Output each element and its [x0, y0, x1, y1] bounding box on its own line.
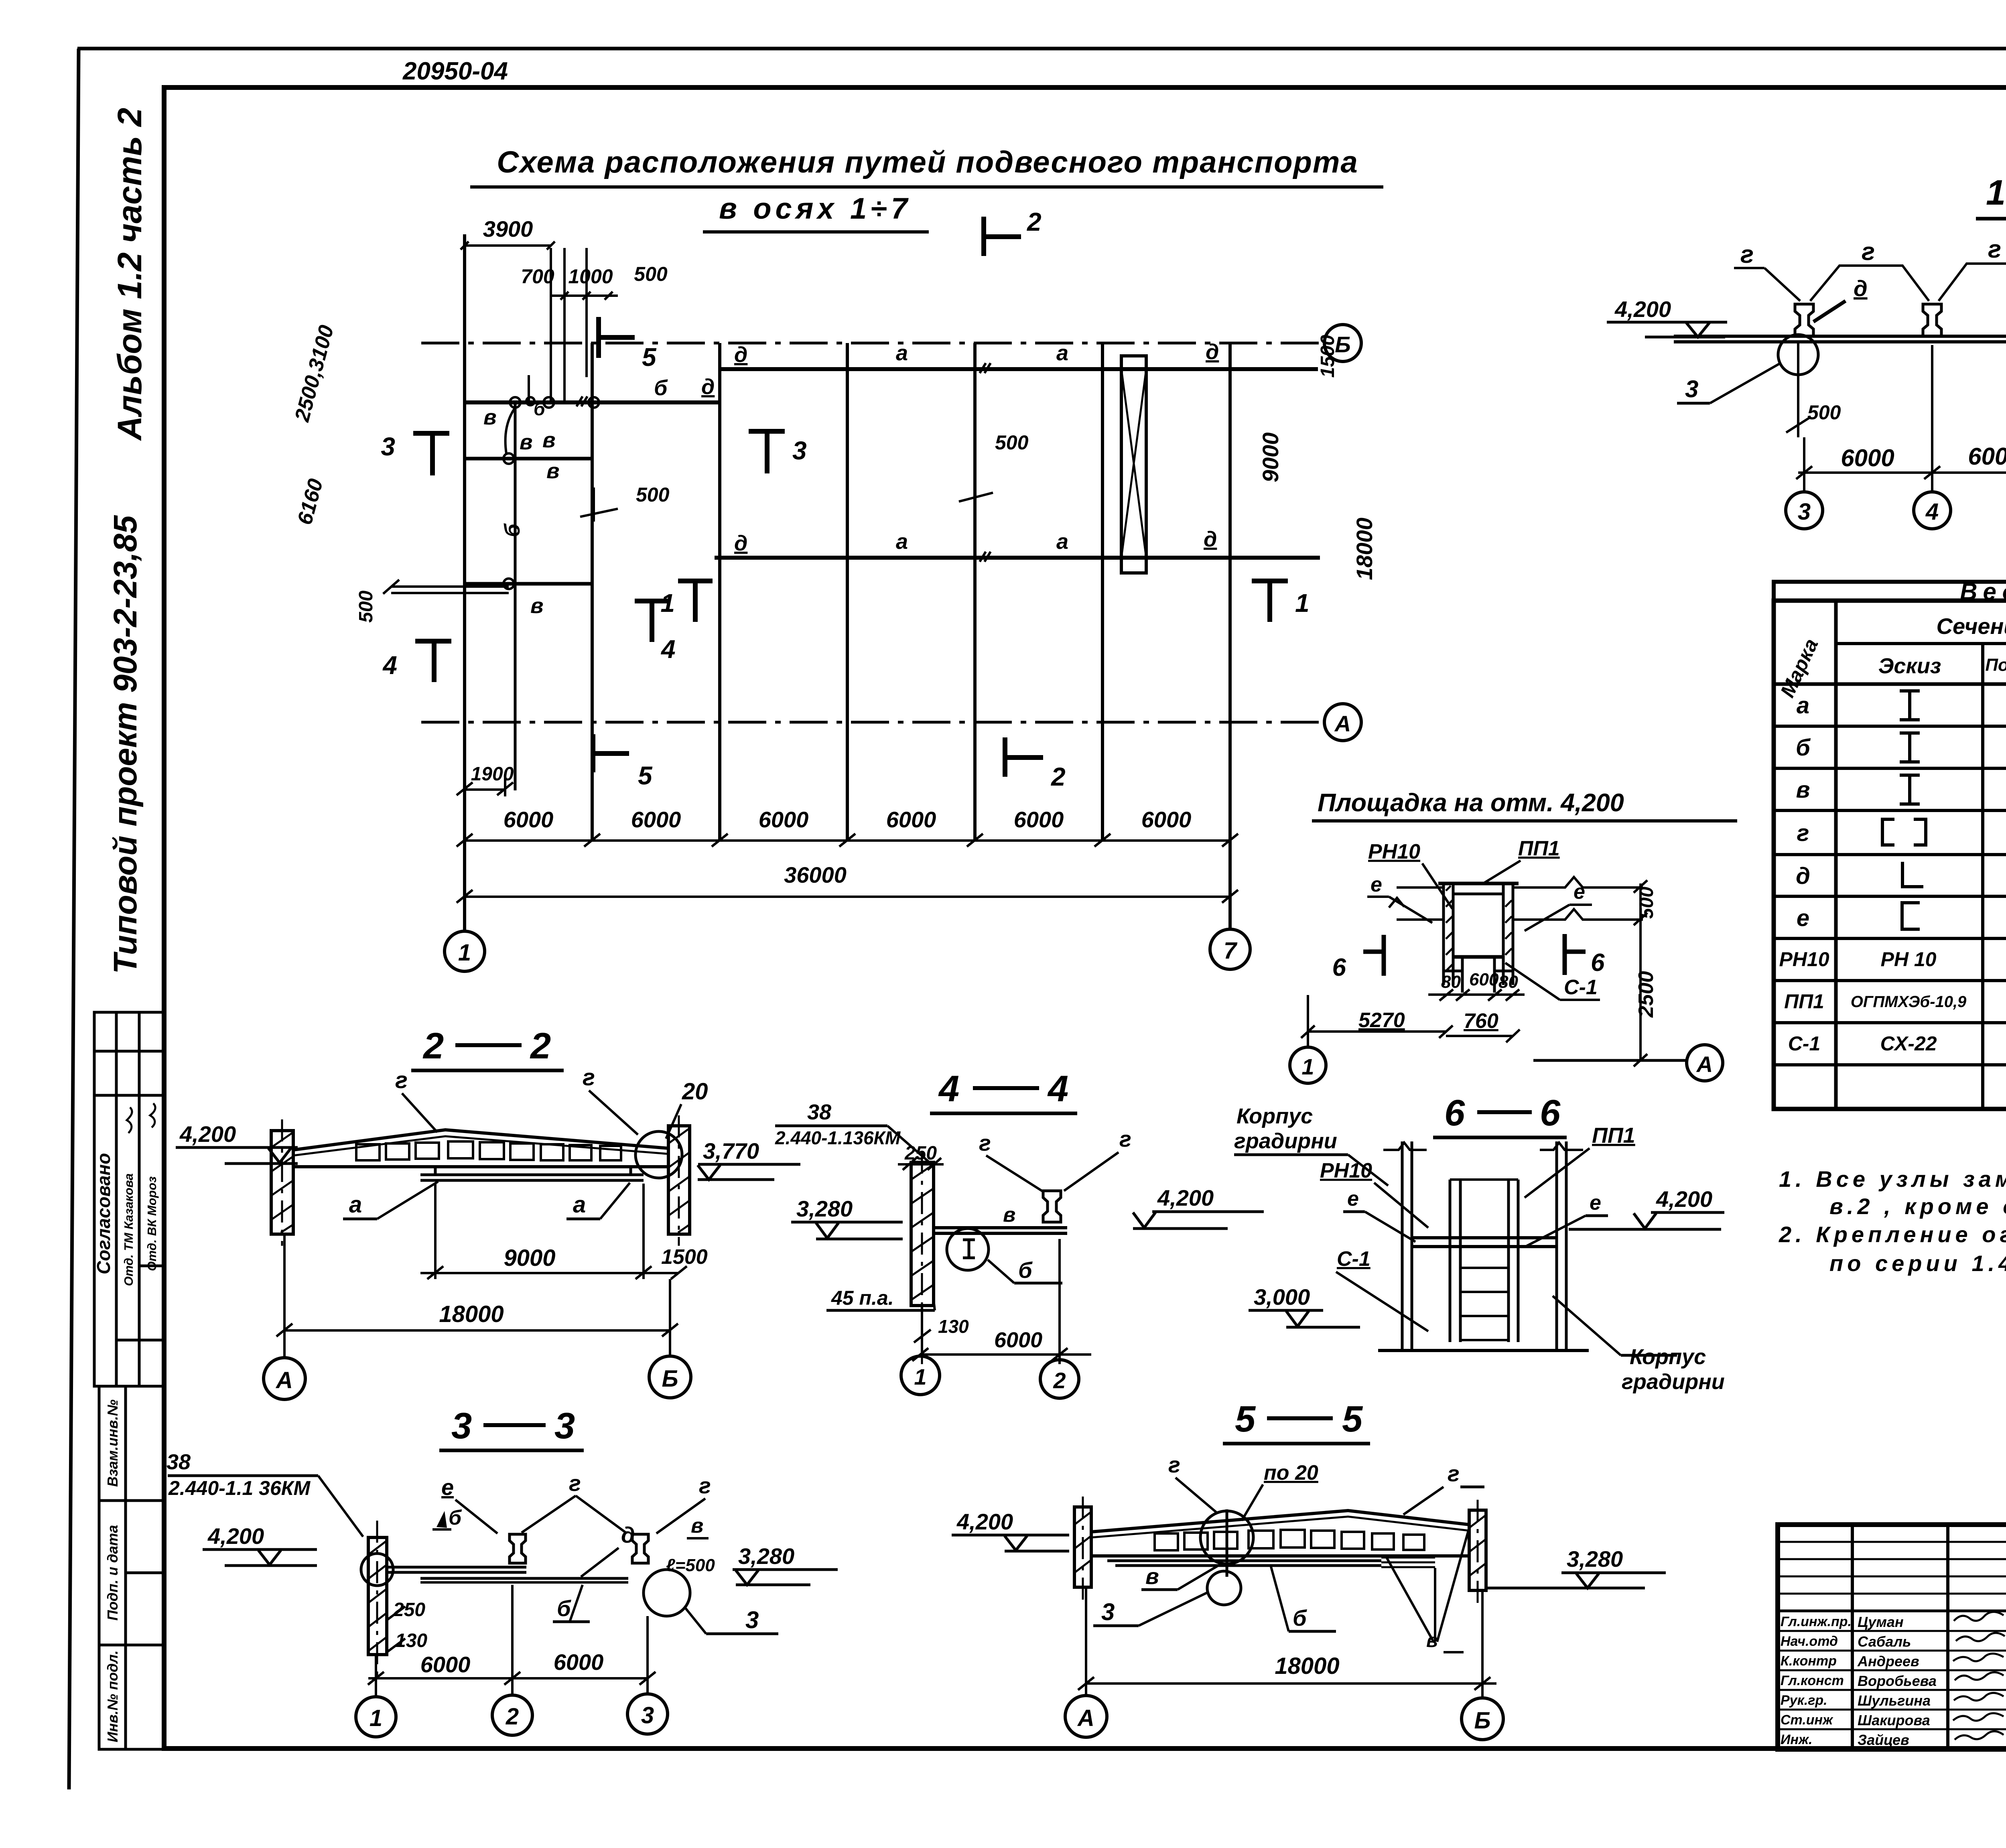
svg-text:760: 760	[1464, 1009, 1498, 1033]
svg-text:130: 130	[395, 1630, 427, 1651]
svg-text:д: д	[1204, 527, 1217, 551]
svg-text:1500: 1500	[661, 1245, 708, 1269]
svg-text:г: г	[1119, 1126, 1131, 1151]
svg-text:Андреев: Андреев	[1857, 1653, 1919, 1669]
svg-text:1: 1	[660, 589, 675, 617]
svg-text:3: 3	[1798, 499, 1811, 525]
svg-text:4,200: 4,200	[1656, 1186, 1712, 1212]
svg-text:4,200: 4,200	[207, 1523, 264, 1549]
svg-text:а: а	[349, 1192, 362, 1218]
svg-text:в осях 1÷7: в осях 1÷7	[719, 192, 912, 225]
svg-text:1: 1	[1295, 589, 1310, 617]
svg-text:45 п.а.: 45 п.а.	[831, 1287, 894, 1309]
svg-text:Инв.№ подл.: Инв.№ подл.	[104, 1650, 121, 1742]
svg-text:д: д	[621, 1522, 635, 1547]
svg-text:1: 1	[1986, 173, 2006, 212]
svg-text:1900: 1900	[471, 764, 514, 785]
svg-text:б: б	[449, 1506, 462, 1529]
svg-text:4: 4	[1047, 1068, 1068, 1109]
svg-text:7: 7	[1224, 938, 1238, 964]
svg-text:Эскиз: Эскиз	[1878, 654, 1941, 678]
svg-text:3,280: 3,280	[738, 1543, 794, 1569]
svg-text:3,000: 3,000	[1254, 1284, 1310, 1310]
svg-text:Инж.: Инж.	[1781, 1732, 1812, 1747]
svg-text:6000: 6000	[631, 807, 681, 832]
svg-text:б: б	[1796, 735, 1811, 761]
svg-text:РН10: РН10	[1368, 840, 1420, 863]
svg-text:2: 2	[506, 1704, 519, 1730]
svg-text:в: в	[546, 459, 560, 483]
svg-text:А: А	[275, 1367, 293, 1393]
svg-text:Шульгина: Шульгина	[1858, 1692, 1931, 1709]
svg-text:38: 38	[807, 1100, 831, 1124]
svg-text:6000: 6000	[1841, 445, 1894, 471]
svg-text:в: в	[691, 1514, 703, 1537]
svg-text:д: д	[1206, 340, 1219, 364]
svg-text:в.2 , кроме оговоренных.: в.2 , кроме оговоренных.	[1829, 1194, 2006, 1219]
svg-text:в: в	[1003, 1203, 1015, 1227]
svg-text:Шакирова: Шакирова	[1858, 1712, 1930, 1728]
svg-text:градирни: градирни	[1234, 1129, 1337, 1153]
svg-text:500: 500	[634, 263, 668, 285]
svg-text:1500: 1500	[1317, 335, 1338, 378]
svg-text:1: 1	[1301, 1054, 1314, 1079]
svg-text:в: в	[1145, 1564, 1159, 1589]
svg-text:1: 1	[370, 1705, 382, 1731]
svg-text:б: б	[534, 398, 546, 419]
svg-text:в: в	[530, 594, 544, 618]
svg-text:3: 3	[451, 1405, 472, 1446]
svg-text:18000: 18000	[439, 1301, 504, 1327]
svg-text:1: 1	[914, 1364, 926, 1389]
svg-text:в: в	[542, 428, 556, 452]
svg-text:е: е	[1347, 1187, 1359, 1210]
svg-text:4: 4	[660, 635, 676, 664]
svg-text:а: а	[1056, 530, 1068, 554]
svg-text:6000: 6000	[504, 807, 554, 832]
svg-text:в: в	[520, 430, 533, 454]
svg-text:2. Крепление ограждения ПП1: 2. Крепление ограждения ПП1 осуществлять	[1779, 1222, 2006, 1247]
svg-text:500: 500	[355, 591, 377, 623]
svg-text:СХ-22: СХ-22	[1880, 1032, 1937, 1055]
svg-text:20: 20	[682, 1078, 708, 1105]
svg-text:6: 6	[1540, 1093, 1561, 1133]
svg-text:6: 6	[1444, 1093, 1465, 1133]
svg-text:ОГПМХЭб-10,9: ОГПМХЭб-10,9	[1851, 993, 1967, 1011]
svg-text:Поз.: Поз.	[1985, 655, 2006, 675]
svg-text:2: 2	[530, 1026, 551, 1066]
svg-text:Б: Б	[662, 1366, 678, 1392]
svg-text:РН 10: РН 10	[1881, 948, 1937, 971]
svg-text:4,200: 4,200	[956, 1509, 1013, 1534]
svg-text:в: в	[1426, 1630, 1438, 1651]
svg-text:ПП1: ПП1	[1518, 837, 1560, 860]
svg-text:Гл.конст: Гл.конст	[1781, 1673, 1844, 1688]
svg-text:6000: 6000	[554, 1649, 604, 1675]
svg-text:г: г	[1797, 820, 1809, 846]
svg-text:С-1: С-1	[1337, 1247, 1370, 1271]
svg-text:80: 80	[1441, 972, 1461, 992]
svg-text:б: б	[1293, 1605, 1307, 1631]
svg-text:е: е	[1574, 880, 1585, 904]
svg-text:3,770: 3,770	[703, 1138, 759, 1164]
svg-text:г: г	[395, 1067, 408, 1093]
svg-text:Ст.инж: Ст.инж	[1781, 1712, 1833, 1728]
svg-text:20950-04: 20950-04	[402, 57, 508, 85]
svg-text:3900: 3900	[483, 216, 533, 242]
svg-text:18000: 18000	[1275, 1653, 1339, 1679]
svg-text:9000: 9000	[1258, 433, 1283, 483]
svg-text:Цуман: Цуман	[1858, 1614, 1904, 1630]
svg-text:3,280: 3,280	[1567, 1546, 1623, 1572]
svg-text:6000: 6000	[759, 807, 809, 832]
svg-text:д: д	[734, 531, 747, 555]
svg-text:Сечения: Сечения	[1937, 613, 2006, 639]
svg-text:а: а	[1797, 692, 1809, 719]
svg-text:г: г	[569, 1470, 581, 1496]
svg-text:е: е	[1370, 873, 1382, 896]
svg-text:Подп. и дата: Подп. и дата	[104, 1525, 121, 1621]
svg-text:3: 3	[554, 1405, 575, 1446]
svg-text:3: 3	[381, 432, 395, 461]
svg-text:Корпус: Корпус	[1630, 1345, 1706, 1369]
svg-text:2: 2	[422, 1026, 444, 1066]
svg-text:ℓ=500: ℓ=500	[666, 1556, 715, 1575]
svg-text:18000: 18000	[1352, 518, 1377, 580]
svg-text:6000: 6000	[1141, 807, 1192, 832]
svg-text:Альбом 1.2 часть 2: Альбом 1.2 часть 2	[111, 108, 148, 441]
svg-text:4: 4	[1925, 499, 1939, 525]
svg-text:ПП1: ПП1	[1784, 990, 1824, 1013]
svg-text:Типовой проект 903-2-23,85: Типовой проект 903-2-23,85	[107, 515, 144, 974]
svg-text:г: г	[699, 1473, 711, 1498]
svg-text:3: 3	[745, 1606, 759, 1633]
svg-text:Отд. ВК Мороз: Отд. ВК Мороз	[145, 1176, 159, 1271]
svg-text:РН10: РН10	[1779, 948, 1829, 971]
svg-text:д: д	[701, 375, 715, 399]
svg-text:6000: 6000	[886, 807, 936, 832]
svg-text:Гл.инж.пр.: Гл.инж.пр.	[1781, 1614, 1852, 1629]
svg-text:2.440-1.1 36КМ: 2.440-1.1 36КМ	[168, 1477, 311, 1499]
svg-text:Корпус: Корпус	[1236, 1104, 1313, 1128]
svg-text:е: е	[441, 1474, 454, 1500]
svg-text:г: г	[1862, 238, 1875, 266]
svg-text:500: 500	[636, 483, 670, 506]
svg-text:е: е	[1797, 905, 1809, 931]
svg-text:6000: 6000	[1968, 443, 2006, 470]
svg-text:6: 6	[1332, 954, 1346, 981]
svg-text:1. Все узлы замаркированы п: 1. Все узлы замаркированы по серии 1.426…	[1779, 1166, 2006, 1192]
svg-text:д: д	[1796, 863, 1810, 889]
svg-text:38: 38	[166, 1450, 191, 1474]
svg-text:700: 700	[521, 265, 554, 288]
svg-text:6000: 6000	[1014, 807, 1064, 832]
svg-text:Схема расположения путей подве: Схема расположения путей подвесного тран…	[497, 145, 1358, 179]
svg-text:Б: Б	[1474, 1708, 1490, 1734]
svg-text:г: г	[583, 1064, 595, 1091]
svg-text:250: 250	[393, 1599, 425, 1621]
svg-text:градирни: градирни	[1622, 1370, 1725, 1394]
svg-text:5: 5	[1235, 1399, 1256, 1440]
svg-text:80: 80	[1498, 972, 1518, 992]
svg-text:3: 3	[1685, 376, 1698, 402]
svg-text:А: А	[1334, 711, 1351, 736]
svg-text:Воробьева: Воробьева	[1858, 1673, 1937, 1689]
svg-text:б: б	[500, 523, 524, 537]
svg-text:д: д	[1854, 276, 1868, 301]
svg-text:4,200: 4,200	[1614, 296, 1671, 322]
svg-text:а: а	[1056, 341, 1068, 365]
svg-text:Зайцев: Зайцев	[1858, 1732, 1909, 1748]
svg-text:5: 5	[1342, 1399, 1363, 1440]
svg-text:А: А	[1077, 1705, 1094, 1731]
svg-text:6000: 6000	[420, 1652, 471, 1677]
svg-text:в: в	[1796, 777, 1810, 803]
svg-text:500: 500	[1807, 401, 1841, 424]
svg-text:б: б	[654, 376, 668, 400]
svg-text:Нач.отд: Нач.отд	[1781, 1634, 1838, 1649]
svg-text:Площадка на отм. 4,200: Площадка на отм. 4,200	[1318, 789, 1624, 817]
svg-text:6000: 6000	[994, 1328, 1042, 1352]
svg-text:д: д	[734, 343, 747, 367]
svg-text:9000: 9000	[504, 1245, 555, 1271]
svg-text:2: 2	[1027, 207, 1042, 236]
svg-text:С-1: С-1	[1788, 1032, 1821, 1055]
svg-text:в: в	[483, 405, 497, 429]
svg-text:Взам.инв.№: Взам.инв.№	[104, 1399, 121, 1487]
svg-text:г: г	[1740, 241, 1754, 268]
svg-text:ПП1: ПП1	[1592, 1123, 1635, 1147]
svg-text:3,280: 3,280	[796, 1196, 853, 1221]
svg-text:6: 6	[1591, 949, 1605, 977]
svg-text:РН10: РН10	[1320, 1159, 1372, 1182]
svg-text:Сабаль: Сабаль	[1858, 1633, 1911, 1650]
svg-text:1000: 1000	[568, 265, 613, 288]
svg-text:г: г	[1988, 236, 2001, 263]
svg-text:2: 2	[1051, 762, 1066, 791]
svg-text:а: а	[896, 341, 908, 365]
svg-text:3: 3	[1101, 1598, 1115, 1625]
svg-text:3: 3	[792, 436, 807, 465]
svg-text:2: 2	[1053, 1368, 1066, 1393]
svg-text:2500: 2500	[1634, 971, 1658, 1018]
svg-text:а: а	[573, 1192, 586, 1218]
svg-text:е: е	[1590, 1191, 1601, 1214]
svg-text:4,200: 4,200	[1157, 1185, 1214, 1210]
svg-text:г: г	[1168, 1452, 1180, 1477]
svg-text:б: б	[1018, 1257, 1033, 1283]
svg-text:г: г	[979, 1130, 991, 1156]
svg-text:С-1: С-1	[1564, 976, 1598, 999]
svg-text:500: 500	[995, 431, 1029, 454]
svg-text:Рук.гр.: Рук.гр.	[1781, 1693, 1827, 1708]
svg-text:5: 5	[638, 761, 653, 790]
svg-text:5: 5	[642, 343, 657, 372]
svg-text:а: а	[896, 530, 908, 554]
svg-text:Отд. ТМ Казакова: Отд. ТМ Казакова	[122, 1174, 136, 1286]
svg-text:по серии 1.450.3-3-вып.О.: по серии 1.450.3-3-вып.О.	[1829, 1251, 2006, 1276]
svg-text:по 20: по 20	[1264, 1461, 1318, 1484]
svg-text:К.контр: К.контр	[1781, 1653, 1837, 1669]
svg-text:600: 600	[1469, 970, 1499, 989]
svg-text:1: 1	[458, 940, 471, 966]
svg-text:36000: 36000	[784, 862, 847, 887]
svg-text:2.440-1.136КМ: 2.440-1.136КМ	[775, 1127, 901, 1148]
svg-text:б: б	[557, 1596, 571, 1621]
svg-text:Согласовано: Согласовано	[93, 1153, 114, 1274]
svg-text:5270: 5270	[1358, 1009, 1405, 1032]
svg-text:130: 130	[938, 1316, 969, 1337]
svg-text:4: 4	[382, 651, 397, 680]
svg-text:4,200: 4,200	[179, 1121, 236, 1147]
svg-text:3: 3	[641, 1702, 654, 1728]
svg-text:г: г	[1448, 1461, 1460, 1486]
svg-text:4: 4	[938, 1068, 959, 1109]
svg-text:А: А	[1696, 1052, 1713, 1077]
